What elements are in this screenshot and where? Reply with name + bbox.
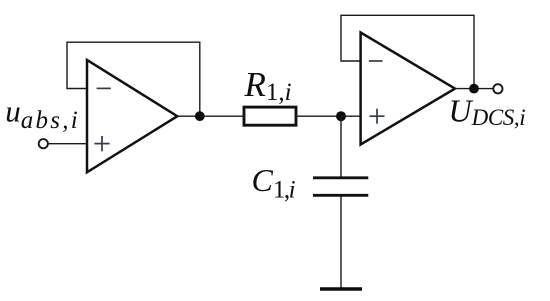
svg-text:C1,i: C1,i (252, 162, 296, 204)
wire input to op-amp U1 plus (48, 143, 88, 145)
input terminal (39, 139, 48, 148)
wire U1 feedback loop (67, 42, 200, 116)
ground (320, 287, 362, 290)
resistor R1 (244, 107, 296, 125)
output terminal (493, 84, 502, 93)
node A junction dot (195, 111, 205, 121)
svg-text:uabs,i: uabs,i (5, 94, 78, 134)
wire U1 output to node A (176, 115, 200, 117)
op-amp U1 (87, 60, 177, 172)
node U2 output dot (469, 84, 479, 94)
wire capacitor C1 to ground (340, 196, 342, 288)
wire node B down to capacitor C1 (340, 116, 342, 177)
svg-text:R1,i: R1,i (244, 65, 292, 106)
wire U2 output (453, 88, 493, 90)
capacitor C1 (313, 178, 368, 196)
wire U2 feedback loop (341, 15, 474, 88)
op-amp U2 (361, 33, 455, 145)
wire node A to resistor R1 (200, 115, 244, 117)
wire node B to op-amp U2 plus (341, 115, 362, 117)
svg-text:UDCS,i: UDCS,i (449, 93, 526, 130)
wire resistor R1 to node B (296, 115, 341, 117)
node B junction dot (336, 111, 346, 121)
